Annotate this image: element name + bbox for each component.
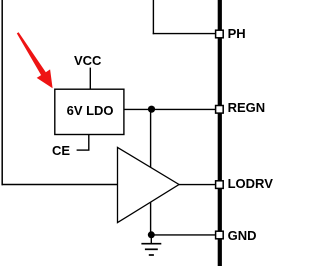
label VCC	[74, 54, 101, 67]
pin GND terminal square	[216, 231, 224, 239]
wire: VCC lead into LDO	[89, 68, 91, 89]
wire: REGN output wire from LDO to REGN pin	[124, 108, 216, 110]
IC boundary thick bus line	[218, 0, 222, 266]
node: REGN junction dot	[148, 106, 155, 113]
wire: phase node horizontal wire to PH pin	[153, 33, 216, 35]
pin label PH	[228, 27, 246, 40]
wire: driver output wire to LODRV pin	[179, 184, 216, 186]
wire: left vertical net wire	[1, 0, 3, 185]
pin REGN terminal square	[216, 106, 224, 114]
pin label LODRV	[228, 177, 273, 190]
node: ground junction dot	[148, 231, 155, 238]
label CE	[52, 144, 70, 157]
pin LODRV terminal square	[216, 181, 224, 189]
pin label GND	[228, 229, 257, 242]
wire: CE lead (horizontal stub)	[77, 149, 90, 151]
wire: horizontal wire to gate driver input	[2, 184, 119, 186]
label 6V LDO value	[67, 104, 114, 117]
pin PH terminal square	[216, 30, 224, 38]
wire: REGN node vertical wire down to ground node	[150, 109, 152, 234]
pin label REGN	[228, 101, 266, 114]
wire: CE lead (vertical)	[88, 135, 90, 150]
U2 6V LDO block	[55, 89, 124, 134]
annotation: red arrow pointing at LDO	[17, 32, 53, 88]
wire: ground wire to GND pin	[151, 234, 216, 236]
ground symbol	[141, 237, 161, 255]
op-amp U1 gate driver triangle	[118, 147, 180, 222]
wire: phase node vertical wire	[152, 0, 154, 34]
